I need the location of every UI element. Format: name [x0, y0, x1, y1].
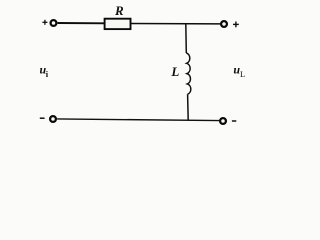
- terminal polarity + (output top-right): [233, 22, 239, 28]
- terminal polarity + (input top-left): [42, 20, 47, 25]
- svg-text:R: R: [114, 3, 124, 18]
- svg-text:L: L: [170, 64, 179, 79]
- terminal circle (input top-left): [51, 20, 57, 26]
- terminal circle (output top-right): [221, 21, 227, 27]
- svg-text:i: i: [46, 69, 49, 79]
- node: junction of top wire and inductor lead: [185, 24, 188, 53]
- terminal circle (output bottom-right): [220, 118, 226, 124]
- wire: top-left terminal to resistor: [58, 22, 105, 24]
- svg-text:L: L: [240, 69, 245, 79]
- terminal polarity - (output bottom-right): [232, 120, 236, 122]
- wire: resistor to junction to top-right terminal: [131, 23, 220, 25]
- terminal polarity - (input bottom-left): [40, 117, 45, 119]
- resistor R (box): [105, 19, 131, 29]
- terminal circle (input bottom-left): [50, 116, 56, 122]
- wire: bottom rail: [57, 119, 219, 121]
- inductor L (coil, 4 humps): [186, 53, 191, 94]
- wire: inductor bottom lead to bottom wire: [187, 94, 190, 120]
